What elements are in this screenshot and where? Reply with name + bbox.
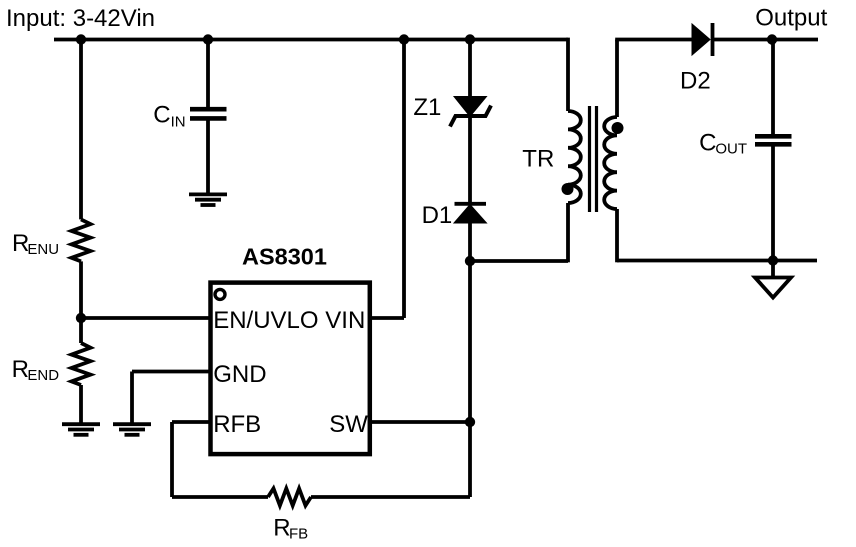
wire: GND down to ground <box>130 372 134 425</box>
junction: output node top <box>767 34 777 44</box>
junction: input rail / R_ENU branch <box>76 34 86 44</box>
transformer TR primary top lead <box>566 40 568 112</box>
transformer TR core <box>590 106 597 212</box>
wire: RFB down leg <box>170 422 174 497</box>
capacitor C_OUT <box>755 136 792 144</box>
ground: output chevron <box>755 278 791 298</box>
svg-text:RFB: RFB <box>213 411 261 438</box>
svg-text:ENU: ENU <box>27 241 59 258</box>
svg-text:GND: GND <box>213 361 266 388</box>
resistor R_ENU <box>72 219 91 261</box>
transformer TR secondary winding <box>604 117 617 209</box>
wire: R_ENU bottom to R_END top <box>79 261 83 343</box>
wire: RFB pin leftward <box>172 420 210 424</box>
wire: VIN pin to vertical riser <box>370 316 404 320</box>
wire: C_IN to ground <box>206 120 210 195</box>
svg-text:C: C <box>699 129 716 156</box>
wire: left rail from input rail to R_ENU <box>79 40 83 220</box>
wire: D2 cathode to output <box>713 38 819 42</box>
wire: R_END bottom to ground <box>79 385 83 424</box>
svg-text:Input: 3-42Vin: Input: 3-42Vin <box>6 5 155 32</box>
ground: below R_END <box>62 424 100 435</box>
transformer TR primary dot <box>562 183 574 195</box>
junction: SW node <box>465 417 475 427</box>
wire: secondary top to D2 anode <box>615 38 692 42</box>
svg-text:FB: FB <box>289 526 308 543</box>
svg-text:TR: TR <box>522 146 554 173</box>
wire: Z1 branch from rail to zener <box>468 40 472 98</box>
junction: input rail / C_IN branch <box>203 34 213 44</box>
svg-text:VIN: VIN <box>325 307 365 334</box>
wire: output node down to C_OUT <box>771 40 775 136</box>
wire: ground stub below output rail <box>771 261 775 279</box>
svg-text:AS8301: AS8301 <box>242 244 327 270</box>
transformer TR secondary bottom lead <box>615 209 619 262</box>
junction: EN/UVLO node <box>76 313 86 323</box>
junction: bottom output / ground node <box>768 255 778 265</box>
junction: D1 anode / primary bottom node <box>465 256 475 266</box>
wire: D1 anode down to primary-bottom node <box>468 223 472 261</box>
svg-text:Z1: Z1 <box>413 94 441 121</box>
wire: VIN riser to input rail <box>402 40 406 319</box>
resistor R_FB <box>268 489 311 506</box>
wire: feedback riser up to SW node <box>468 422 472 497</box>
wire: EN/UVLO node to pin EN/UVLO <box>81 316 210 320</box>
transformer TR primary winding <box>568 111 581 203</box>
junction: input rail / VIN branch <box>399 34 409 44</box>
svg-text:END: END <box>27 367 59 384</box>
svg-text:D2: D2 <box>680 68 711 95</box>
ground: IC GND pin <box>113 424 151 435</box>
wire: bottom feedback run right of R_FB <box>311 495 470 499</box>
pin 1 indicator circle <box>215 289 225 299</box>
wire: top input rail <box>54 38 568 42</box>
wire: SW pin to SW node <box>370 420 470 424</box>
ground: below C_IN <box>189 194 227 205</box>
svg-text:SW: SW <box>329 411 368 438</box>
svg-text:IN: IN <box>171 113 186 130</box>
wire: SW node up to D1 anode node <box>468 261 472 422</box>
wire: primary bottom horizontal <box>470 259 568 263</box>
svg-text:OUT: OUT <box>715 141 747 158</box>
zener diode Z1 <box>450 97 491 127</box>
wire: GND pin leftward <box>132 370 210 374</box>
wire: bottom output rail <box>617 259 817 263</box>
capacitor C_IN <box>190 109 227 118</box>
svg-text:Output: Output <box>755 5 827 32</box>
diode D1 <box>454 204 487 223</box>
resistor R_END <box>72 343 91 385</box>
svg-text:C: C <box>153 101 170 128</box>
svg-text:R: R <box>12 356 29 383</box>
diode D2 <box>692 23 713 56</box>
wire: Z1 cathode to D1 cathode <box>468 114 472 204</box>
transformer TR secondary top lead <box>615 40 619 118</box>
svg-text:D1: D1 <box>422 202 453 229</box>
IC U1 AS8301 box <box>211 283 370 455</box>
svg-text:EN/UVLO: EN/UVLO <box>213 307 318 334</box>
transformer TR primary bottom lead <box>566 203 570 262</box>
wire: C_OUT down to bottom output rail <box>771 146 775 261</box>
transformer TR secondary dot <box>612 122 624 134</box>
wire: bottom feedback run left of R_FB <box>172 495 268 499</box>
wire: C_IN branch from rail to capacitor <box>206 40 210 109</box>
junction: input rail / Z1 branch <box>465 34 475 44</box>
